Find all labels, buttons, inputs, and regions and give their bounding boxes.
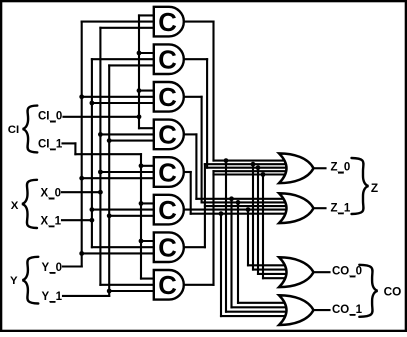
svg-text:C: C: [158, 47, 177, 75]
svg-text:Y_1: Y_1: [42, 291, 63, 303]
svg-text:X_1: X_1: [41, 215, 62, 227]
svg-text:C: C: [158, 159, 177, 187]
svg-text:C: C: [158, 272, 177, 300]
svg-text:CI_1: CI_1: [38, 138, 63, 150]
svg-text:C: C: [158, 197, 177, 225]
svg-text:C: C: [158, 122, 177, 150]
svg-text:Y: Y: [10, 275, 18, 287]
svg-text:Z_1: Z_1: [331, 202, 351, 214]
svg-text:CO: CO: [384, 285, 402, 299]
svg-text:CO_1: CO_1: [332, 304, 363, 316]
svg-text:Z_0: Z_0: [331, 162, 351, 174]
svg-text:X: X: [11, 200, 19, 212]
svg-text:CI: CI: [8, 124, 19, 136]
svg-text:X_0: X_0: [41, 188, 61, 200]
svg-text:C: C: [158, 9, 177, 37]
svg-text:C: C: [158, 84, 177, 112]
svg-text:CI_0: CI_0: [38, 111, 62, 123]
svg-text:CO_0: CO_0: [332, 265, 362, 277]
svg-text:Y_0: Y_0: [42, 262, 62, 274]
svg-text:Z: Z: [371, 181, 378, 195]
svg-text:C: C: [158, 235, 177, 263]
